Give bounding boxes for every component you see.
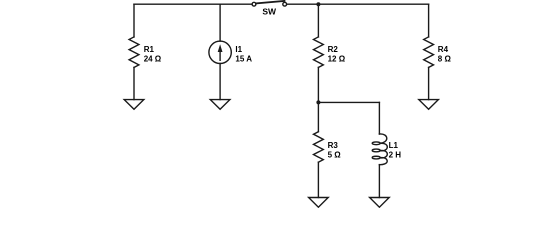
wire I1 branch vertical top xyxy=(219,4,221,41)
wire horizontal to L1 branch xyxy=(318,101,379,103)
wire R3 to ground xyxy=(317,162,319,197)
wire top-right horizontal segment xyxy=(287,3,429,5)
ground under R3 xyxy=(309,198,329,208)
svg-text:2 H: 2 H xyxy=(389,150,402,159)
wire R4 to ground xyxy=(428,67,430,99)
svg-text:5 Ω: 5 Ω xyxy=(328,150,342,159)
svg-text:R2: R2 xyxy=(328,45,339,54)
wire L1 to ground xyxy=(378,165,380,198)
ground under I1 xyxy=(210,100,230,110)
wire I1 to ground xyxy=(219,64,221,100)
node junction dot mid (L1 tap) xyxy=(316,100,320,104)
label R3 5ohm xyxy=(328,141,342,160)
svg-text:I1: I1 xyxy=(235,45,242,54)
svg-text:L1: L1 xyxy=(389,141,399,150)
svg-text:R4: R4 xyxy=(438,45,449,54)
svg-text:15 A: 15 A xyxy=(235,54,252,63)
label I1 15A xyxy=(235,45,252,64)
wire R2 branch vertical top xyxy=(317,4,319,37)
switch SW xyxy=(252,1,287,6)
ground under L1 xyxy=(370,198,390,208)
svg-text:24 Ω: 24 Ω xyxy=(144,54,162,63)
current source I1 xyxy=(209,41,231,63)
wire R1 branch vertical top xyxy=(133,4,135,37)
resistor R4 xyxy=(424,37,434,68)
label R1 24ohm xyxy=(144,45,162,64)
resistor R2 xyxy=(314,37,324,68)
ground under R4 xyxy=(419,100,439,110)
label R4 8ohm xyxy=(438,45,452,64)
wire R4 branch vertical top xyxy=(428,4,430,37)
svg-text:SW: SW xyxy=(262,7,277,17)
wire R1 to ground xyxy=(133,67,135,99)
svg-text:12 Ω: 12 Ω xyxy=(328,54,346,63)
ground under R1 xyxy=(124,100,144,110)
label R2 12ohm xyxy=(328,45,346,64)
svg-text:R3: R3 xyxy=(328,141,339,150)
label L1 2H xyxy=(389,141,402,160)
svg-text:8 Ω: 8 Ω xyxy=(438,54,452,63)
resistor R3 xyxy=(314,132,324,163)
svg-text:R1: R1 xyxy=(144,45,155,54)
inductor L1 xyxy=(372,134,387,165)
wire top-left horizontal segment xyxy=(134,3,252,5)
wire L1 branch vertical top xyxy=(378,102,380,134)
resistor R1 xyxy=(129,37,139,68)
node junction dot top (R2 branch tap) xyxy=(316,2,320,6)
wire R2 to node xyxy=(317,67,319,131)
